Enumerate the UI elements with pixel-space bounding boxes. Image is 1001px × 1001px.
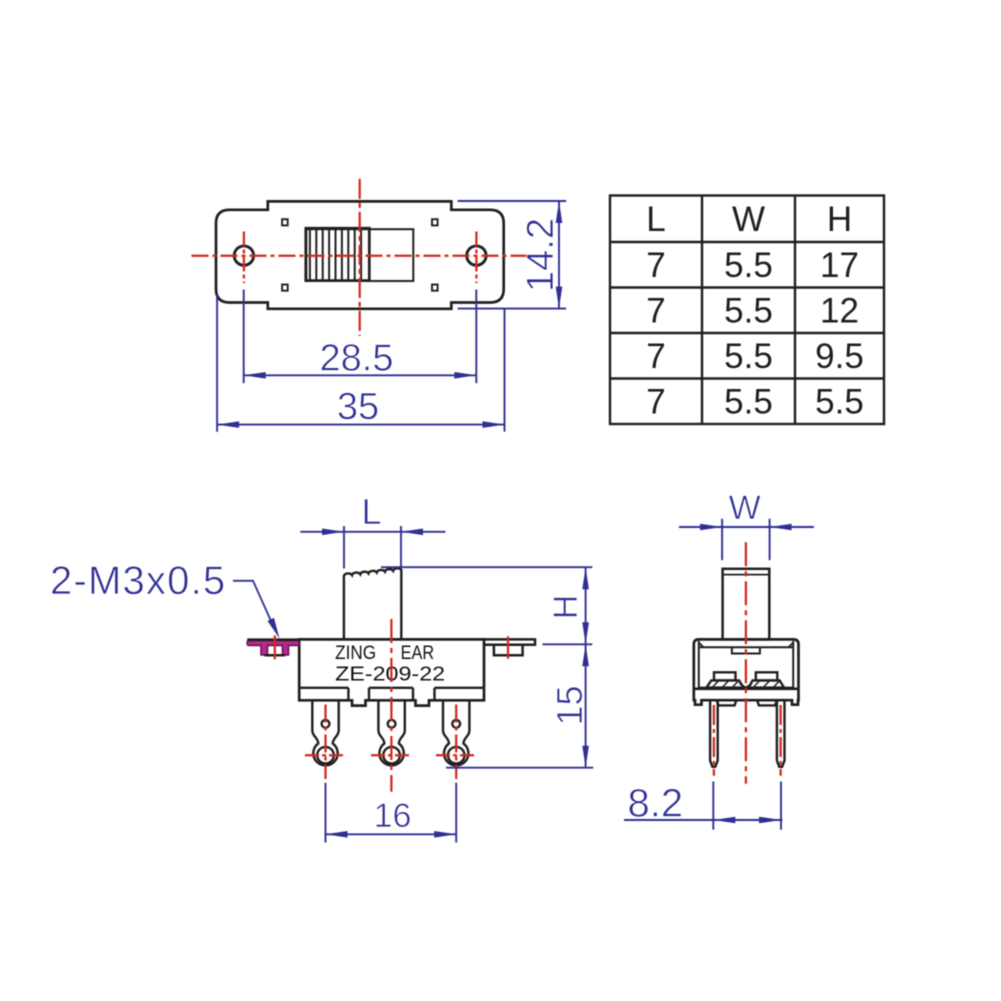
corner square bottom-right	[432, 285, 438, 291]
side center line	[745, 542, 747, 784]
corner square top-left	[282, 219, 288, 225]
body top extension line	[543, 643, 593, 645]
slider knob (hatched)	[306, 228, 370, 280]
svg-text:28.5: 28.5	[320, 338, 394, 380]
terminal 2	[378, 700, 404, 765]
slider slot	[306, 229, 413, 281]
dimension 14.2 extension lines	[458, 200, 567, 202]
side knob	[723, 569, 770, 640]
svg-text:15: 15	[549, 685, 590, 725]
svg-text:L: L	[646, 200, 665, 239]
svg-text:16: 16	[374, 797, 412, 835]
terminal tip crosshair 2	[371, 754, 412, 756]
right pin	[777, 700, 785, 767]
right ear	[484, 639, 535, 655]
svg-text:5.5: 5.5	[724, 337, 773, 376]
corner square bottom-left	[282, 285, 288, 291]
vertical center line	[359, 179, 361, 336]
svg-text:17: 17	[820, 246, 859, 285]
terminal tip crosshair 3	[436, 754, 477, 756]
right contact bump	[756, 672, 778, 680]
left ear center tick	[274, 636, 276, 660]
right ear center tick	[507, 636, 509, 658]
right pin center line	[779, 705, 781, 776]
svg-text:5.5: 5.5	[724, 383, 773, 422]
side inner corner chamfers	[699, 643, 704, 648]
leader line to ear	[233, 581, 276, 631]
bottom extension line	[446, 767, 593, 769]
table frame	[610, 196, 884, 425]
table row lines	[610, 241, 884, 243]
side inner walls	[698, 641, 700, 688]
dimension line H/15 vertical	[585, 567, 587, 768]
dimension W line with outside arrows	[679, 526, 814, 528]
svg-text:W: W	[729, 489, 761, 527]
dimension W extension lines	[721, 519, 723, 560]
svg-text:7: 7	[646, 337, 665, 376]
front flange outline with pcb tabs	[299, 688, 484, 706]
svg-text:35: 35	[337, 386, 379, 428]
svg-text:W: W	[732, 200, 765, 239]
left pin	[710, 700, 718, 767]
right mounting hole	[467, 246, 486, 265]
side inner top line	[699, 646, 793, 648]
svg-text:H: H	[827, 200, 852, 239]
svg-text:5.5: 5.5	[724, 292, 773, 331]
dimension 16 extension lines	[325, 783, 327, 843]
svg-text:ZING: ZING	[335, 643, 376, 664]
side top notch	[732, 647, 760, 653]
svg-text:14.2: 14.2	[520, 218, 562, 292]
dimension 8.2 extension lines	[712, 782, 714, 830]
side body outline	[694, 639, 799, 704]
left ear bottom line	[265, 654, 286, 657]
top view plate outline	[216, 201, 504, 308]
dimension 35 extension lines	[216, 294, 218, 432]
svg-text:8.2: 8.2	[628, 782, 684, 826]
H top extension line	[381, 566, 592, 568]
dimension 8.2 line	[624, 819, 782, 821]
left pcb tab	[717, 700, 737, 705]
svg-text:5.5: 5.5	[724, 246, 773, 285]
left hole vertical center line	[243, 232, 245, 284]
center v notch	[740, 684, 753, 688]
knob hatch lines	[310, 229, 361, 280]
table column lines	[701, 196, 703, 425]
side inner bottom line	[699, 687, 793, 689]
svg-text:9.5: 9.5	[815, 337, 864, 376]
terminal 3	[443, 700, 469, 765]
horizontal center line	[192, 255, 529, 257]
svg-text:H: H	[547, 595, 585, 620]
side flange line	[694, 687, 799, 690]
svg-text:7: 7	[646, 246, 665, 285]
svg-text:ZE-209-22: ZE-209-22	[335, 664, 445, 686]
terminal 1 center line	[324, 705, 326, 780]
right hole vertical center line	[475, 232, 477, 284]
terminal 1	[312, 700, 338, 765]
front knob with knurled top	[344, 568, 401, 639]
bump hatch marks	[713, 682, 779, 687]
svg-text:12: 12	[820, 292, 859, 331]
svg-text:2-M3x0.5: 2-M3x0.5	[50, 559, 226, 603]
terminal tip crosshair 1	[305, 754, 346, 756]
dimension 28.5 extension lines	[243, 290, 245, 384]
svg-text:EAR: EAR	[401, 643, 435, 664]
front body bottom line segments	[299, 688, 484, 701]
dimension 28.5 line	[244, 374, 477, 376]
left ear top edge	[247, 638, 299, 641]
right ear inner line	[494, 644, 523, 647]
left contact bump	[714, 672, 736, 680]
front body outline	[299, 639, 484, 687]
terminal 3 center line	[455, 705, 457, 780]
dimension L line with outside arrows	[300, 531, 445, 533]
left pin center line	[713, 705, 715, 776]
corner square top-right	[432, 219, 438, 225]
svg-text:7: 7	[646, 383, 665, 422]
svg-text:L: L	[361, 491, 381, 532]
side knob inner line	[723, 574, 770, 576]
dimension 35 line	[217, 424, 504, 426]
dimension L extension lines	[343, 526, 345, 569]
front center line	[390, 619, 392, 792]
left ear (highlighted M3 boss)	[247, 641, 299, 655]
left mounting hole	[234, 246, 253, 265]
svg-text:5.5: 5.5	[815, 383, 864, 422]
svg-text:7: 7	[646, 292, 665, 331]
dimension 14.2 line	[558, 201, 560, 309]
right pcb tab	[757, 700, 777, 705]
dimension 16 line	[326, 833, 457, 835]
